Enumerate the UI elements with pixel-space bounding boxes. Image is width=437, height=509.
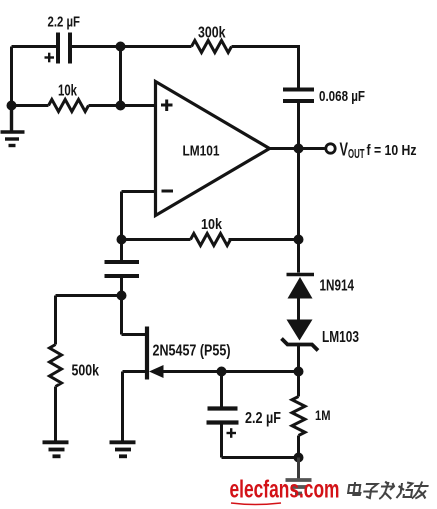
diode D2 LM103 (zener) <box>287 320 313 341</box>
diode D1 1N914 <box>297 240 300 273</box>
svg-text:2.2 µF: 2.2 µF <box>245 410 281 427</box>
wire top loop right segment <box>72 45 121 48</box>
svg-text:2N5457 (P55): 2N5457 (P55) <box>153 343 231 360</box>
op-amp U1 LM101 <box>156 82 270 216</box>
Q1 channel bar <box>145 327 149 380</box>
Q1 drain wire <box>120 296 123 335</box>
ground (below Q1 source) <box>110 442 136 456</box>
svg-text:V: V <box>340 140 349 160</box>
resistor R1 10k (input) <box>12 104 49 107</box>
char zi <box>362 484 378 498</box>
capacitor C3 (series, unlabeled) <box>120 240 123 261</box>
svg-text:LM101: LM101 <box>183 142 220 159</box>
wire right rail (C2 to output node) <box>297 103 300 149</box>
svg-text:f = 10 Hz: f = 10 Hz <box>367 142 417 159</box>
wire to 500k branch <box>56 294 122 297</box>
wire right rail (output node to feedback node) <box>297 149 300 240</box>
svg-text:300k: 300k <box>198 25 226 42</box>
svg-text:LM103: LM103 <box>322 329 359 346</box>
char you <box>412 482 429 499</box>
Q1 source wire <box>123 370 147 373</box>
resistor R2 300k <box>121 45 192 48</box>
Q1 gate wire <box>162 370 299 373</box>
resistor R5 1M <box>297 372 300 397</box>
char fa <box>379 482 395 500</box>
svg-text:1M: 1M <box>315 407 331 423</box>
resistor R3 10k (feedback) <box>122 238 191 241</box>
node: output dot <box>294 144 304 154</box>
capacitor C1 2.2uF <box>58 33 70 64</box>
ground (top left) <box>1 106 25 146</box>
Q1 gate arrow <box>149 365 164 378</box>
node: left input junction dot <box>7 101 17 111</box>
svg-text:10k: 10k <box>201 216 223 233</box>
char dian <box>348 482 362 495</box>
U1 plus input mark <box>161 100 173 112</box>
C4 polarity plus <box>227 428 237 438</box>
node: dot top at C1/R2 junction <box>116 42 126 52</box>
svg-text:10k: 10k <box>58 83 77 100</box>
svg-text:2.2 µF: 2.2 µF <box>48 14 81 30</box>
svg-text:elecfans.com: elecfans.com <box>230 476 340 504</box>
wire right rail top <box>297 45 300 88</box>
wire minus input <box>122 190 156 193</box>
capacitor C4 2.2uF <box>220 372 223 407</box>
node: bottom dot <box>294 453 304 463</box>
capacitor C2 0.068uF <box>283 90 314 102</box>
resistor R4 500k <box>50 345 62 387</box>
svg-text:OUT: OUT <box>348 147 365 161</box>
node: dot right feedback <box>294 235 304 245</box>
wire left rail <box>10 47 13 106</box>
watermark chinese characters 电子发烧友 <box>347 482 429 500</box>
node: dot gate/rail junction <box>294 367 304 377</box>
svg-text:1N914: 1N914 <box>320 278 355 295</box>
wire output from op-amp apex <box>270 147 325 150</box>
svg-text:500k: 500k <box>72 362 100 379</box>
node: dot below C3 <box>117 291 127 301</box>
output terminal VOUT (open circle) <box>326 144 335 153</box>
node: dot at + input branch <box>116 101 126 111</box>
char shao <box>396 483 413 499</box>
ground (below 500k) <box>43 442 69 456</box>
ground (bottom right) <box>297 458 300 480</box>
watermark red swoosh <box>231 503 281 505</box>
C1 polarity plus <box>45 53 55 63</box>
wire top loop left segment <box>12 45 57 48</box>
wire bottom (C4 to rail) <box>222 456 299 459</box>
U1 minus input mark <box>162 190 174 193</box>
wire vertical between top node and + input <box>119 47 122 106</box>
svg-text:0.068 µF: 0.068 µF <box>319 88 365 105</box>
node: dot left feedback <box>117 235 127 245</box>
node: dot gate/C4 junction <box>217 367 227 377</box>
